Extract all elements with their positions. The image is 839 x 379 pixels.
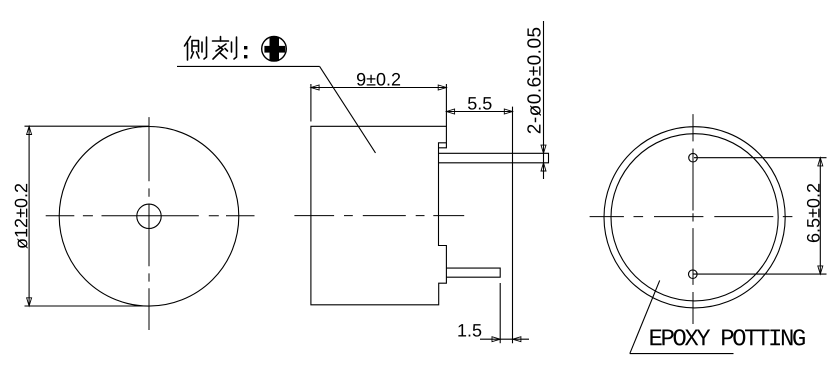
svg-text:ø12±0.2: ø12±0.2	[11, 183, 31, 249]
hanzi KE (engrave) drawn strokes	[213, 37, 237, 60]
dim 6.5 arrow top	[818, 158, 823, 166]
back view upper pin hole	[689, 153, 698, 162]
side view lower pin lead	[446, 268, 500, 277]
dim 5.5 arrow right	[504, 109, 512, 114]
side view upper pin lead	[439, 153, 549, 163]
label leader underline (ce ke)	[177, 65, 320, 67]
dim 6.5 arrow bottom	[818, 266, 823, 274]
back view horizontal centerline	[590, 216, 793, 218]
dim phi12 arrow top	[27, 126, 32, 134]
back view vertical centerline	[692, 114, 694, 324]
label colon	[244, 46, 247, 58]
dim 2-phi0.6 arrow lower (points up to lead bottom)	[541, 163, 546, 171]
back view inner circle	[611, 134, 778, 301]
dim 1.5 arrow right (points left to x=512.7)	[513, 337, 521, 342]
label leader diagonal to body	[320, 66, 376, 152]
back view outer circle (right)	[604, 127, 785, 308]
side view horizontal centerline	[294, 215, 464, 217]
dim 2-phi0.6 arrow upper (points down to lead top)	[541, 145, 546, 153]
dim 5.5 arrow left	[446, 109, 454, 114]
polarity mark circle	[262, 37, 287, 62]
dim 9 extension line left	[310, 84, 312, 122]
epoxy potting leader diagonal	[630, 280, 660, 353]
front view center hole	[137, 204, 161, 228]
epoxy potting leader underline	[630, 353, 734, 355]
dim 9 arrow right	[438, 85, 446, 90]
dim 1.5 dimension line	[480, 338, 529, 340]
dim phi12 extension line top	[25, 125, 149, 127]
dim 9 / 5.5 shared extension line right	[445, 84, 447, 126]
svg-text:1.5: 1.5	[457, 320, 482, 340]
svg-text:2-ø0.6±0.05: 2-ø0.6±0.05	[524, 26, 545, 134]
dim 1.5 arrow left (points right to x=500.2)	[492, 337, 500, 342]
dim 9 dimension line	[311, 87, 447, 89]
back view lower pin hole	[689, 270, 698, 279]
dim 6.5 extension line top	[694, 157, 827, 159]
front view vertical centerline	[148, 117, 150, 330]
svg-text:9±0.2: 9±0.2	[356, 69, 401, 89]
svg-text:5.5: 5.5	[467, 93, 492, 113]
dim 5.5 dimension line	[446, 111, 512, 113]
dim 1.5 extension line left (from lower lead tip)	[499, 283, 501, 343]
svg-text:EPOXY POTTING: EPOXY POTTING	[648, 326, 804, 353]
dim 2-phi0.6 dimension line	[543, 21, 545, 179]
dim 6.5 extension line bottom	[694, 273, 827, 275]
dim 6.5 dimension line	[819, 158, 821, 274]
dim phi12 extension line bottom	[25, 305, 149, 307]
side view small boss box top-right	[439, 143, 447, 148]
dim 9 arrow left	[311, 85, 319, 90]
hanzi CE (side) drawn strokes	[185, 37, 207, 61]
front view horizontal centerline	[46, 215, 255, 217]
front view outer circle (left)	[59, 127, 239, 307]
polarity mark cross	[264, 37, 285, 61]
dim 5.5 extension line right (long, down to 1.5 dim)	[512, 107, 514, 344]
dim phi12 dimension line	[28, 126, 30, 306]
side view body outline	[311, 126, 447, 304]
svg-text:6.5±0.2: 6.5±0.2	[803, 183, 823, 243]
dim phi12 arrow bottom	[27, 298, 32, 306]
